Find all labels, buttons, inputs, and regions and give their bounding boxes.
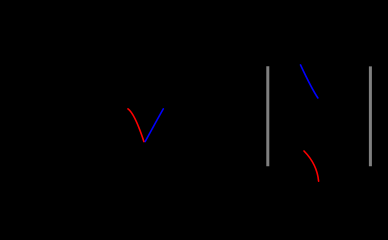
blue arrow right top [301,65,318,98]
blue arrow left (V right arm) [145,109,163,142]
red arrow right bottom [304,151,319,181]
red arrow left (V left arm) [128,109,144,142]
capacitor plate left [266,66,269,166]
capacitor plate right [369,66,372,166]
